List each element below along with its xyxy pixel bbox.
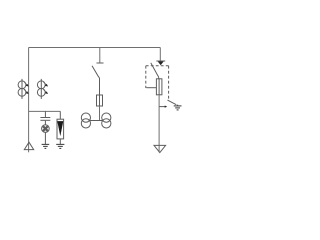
voltage transformer T4 (right pair) — [102, 113, 111, 128]
fuse F2 — [156, 79, 162, 95]
earth at Q3 — [174, 105, 182, 110]
surge arrester F3 — [57, 111, 64, 138]
wire: blade to fuse — [99, 78, 101, 95]
cable termination triangle (up) — [24, 142, 33, 149]
earth below lamp — [42, 144, 50, 148]
wire: fuse to VT group — [99, 106, 101, 121]
transformer T1 (withdrawable, left of feeder) — [18, 79, 29, 99]
cable termination arrow (down) — [154, 145, 166, 152]
withdrawable unit boundary (dashed) — [146, 66, 169, 101]
disconnector Q2 blade — [151, 63, 159, 79]
wire: right drop from bus — [159, 48, 161, 61]
wire: arrester to earth — [59, 139, 61, 144]
capacitor C1 (capacitive voltage indicator) — [40, 111, 50, 124]
disconnector Q1 fixed contact bar — [97, 62, 104, 64]
plug-in contact (fixed) of Q2 — [156, 61, 165, 65]
wire: lamp to earth — [44, 132, 46, 144]
earthing switch Q3 branch with arrow contact — [159, 106, 167, 108]
indicator lamp H1 — [42, 125, 50, 133]
wire: middle drop from bus — [99, 48, 101, 64]
transformer T2 (withdrawable, right of feeder) — [37, 79, 48, 99]
wire: bottom-left branch — [29, 110, 61, 112]
wire: top bus — [29, 47, 161, 49]
disconnector Q1 blade — [92, 66, 100, 79]
wire: fuse side stub — [146, 87, 156, 89]
earthing switch Q3 blade — [168, 100, 177, 105]
fuse F1 — [97, 95, 103, 106]
wire: right vertical below fuse — [158, 95, 160, 152]
wire: VT group connector — [89, 120, 103, 122]
voltage transformer T3 (left pair) — [81, 113, 90, 128]
wire: left feeder vertical — [28, 48, 30, 153]
earth below arrester — [56, 144, 64, 148]
